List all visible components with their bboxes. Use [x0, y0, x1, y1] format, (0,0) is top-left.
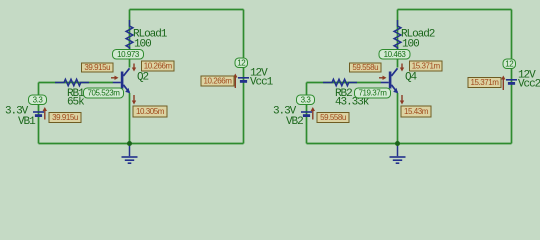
transistor Q2 (NPN) [113, 68, 130, 93]
ground near Q2 [122, 144, 138, 164]
svg-text:100: 100 [134, 39, 151, 51]
ground near Q4 [390, 144, 406, 164]
voltage probe label VB1 probe 3.3 [29, 95, 47, 105]
svg-text:10.973: 10.973 [117, 50, 140, 59]
current probe arrow base current into Q2 [111, 76, 119, 80]
current probe label VB1 current 39.915u [49, 113, 81, 123]
svg-text:3.3: 3.3 [33, 95, 44, 104]
current probe label emitter current 10.305m [133, 106, 167, 117]
wire collector net (RLoad1 to Q2) [129, 10, 131, 68]
svg-text:Vcc2: Vcc2 [518, 79, 540, 91]
current probe arrow collector current into Q4 [400, 64, 404, 72]
svg-text:39.915u: 39.915u [52, 113, 78, 122]
junction node emitter/ground [395, 141, 400, 146]
wire emitter net (Q2 to ground) [129, 93, 131, 144]
svg-text:705.523m: 705.523m [88, 89, 121, 98]
battery VB1 [33, 112, 44, 116]
svg-text:100: 100 [402, 39, 419, 51]
svg-text:65k: 65k [67, 97, 85, 109]
svg-text:15.371m: 15.371m [412, 62, 441, 71]
svg-text:59.558u: 59.558u [352, 63, 378, 72]
current probe label Vcc1 current 10.266m [201, 76, 234, 86]
resistor RLoad2 [394, 20, 401, 54]
current probe arrow Vcc1 current [233, 74, 237, 89]
wire VB2 branch [306, 83, 308, 144]
current probe label base current 39.915u [82, 63, 114, 72]
wire collector net (RLoad2 to Q4) [397, 10, 399, 68]
current probe arrow Vcc2 current [501, 76, 505, 91]
current probe label collector current 15.371m [410, 61, 443, 71]
svg-text:12: 12 [237, 58, 246, 67]
svg-text:15.43m: 15.43m [404, 107, 429, 116]
current probe label VB2 current 59.558u [317, 113, 349, 123]
wire base net (VB1 to Q2 base) [39, 82, 114, 84]
wire top rail (RLoad1 to Vcc1) [130, 9, 244, 11]
wire VB1 branch [38, 83, 40, 144]
current probe label base current 59.558u [350, 63, 382, 72]
wire emitter net (Q4 to ground) [397, 93, 399, 144]
wire bottom rail [39, 143, 244, 145]
svg-text:719.37m: 719.37m [359, 89, 388, 98]
svg-text:10.266m: 10.266m [144, 62, 173, 71]
svg-text:Q4: Q4 [405, 72, 418, 84]
voltage probe label collector voltage 10.973 [113, 50, 144, 60]
current probe arrow base current into Q4 [379, 76, 387, 80]
svg-text:Vcc1: Vcc1 [250, 77, 274, 89]
wire top rail (RLoad2 to Vcc2) [398, 9, 512, 11]
wire right side Vcc2 branch [511, 10, 513, 144]
transistor Q4 (NPN) [381, 68, 398, 93]
svg-text:39.915u: 39.915u [84, 63, 110, 72]
voltage probe label Vcc2 probe 12 [503, 59, 516, 69]
current probe arrow collector current into Q2 [132, 64, 136, 72]
resistor RB1 [55, 79, 89, 85]
battery Vcc1 [238, 78, 249, 82]
resistor RLoad1 [126, 20, 133, 54]
voltage probe label base voltage 719.37m [355, 88, 391, 98]
svg-text:Q2: Q2 [137, 72, 149, 84]
svg-text:15.371m: 15.371m [471, 78, 500, 87]
current probe label emitter current 15.43m [401, 106, 431, 117]
svg-text:10.266m: 10.266m [204, 77, 233, 86]
svg-text:12: 12 [505, 59, 514, 68]
voltage probe label collector voltage 10.463 [379, 50, 410, 60]
resistor RB2 [323, 79, 357, 85]
battery VB2 [301, 112, 312, 116]
battery Vcc2 [506, 80, 517, 84]
junction node emitter/ground [127, 141, 132, 146]
current probe arrow VB1 current [43, 107, 47, 120]
voltage probe label Vcc1 probe 12 [235, 58, 248, 68]
voltage probe label VB2 probe 3.3 [297, 95, 315, 105]
svg-text:10.463: 10.463 [384, 50, 407, 59]
svg-text:10.305m: 10.305m [136, 107, 165, 116]
svg-text:3.3: 3.3 [301, 95, 312, 104]
wire base net (VB2 to Q4 base) [307, 82, 382, 84]
current probe arrow VB2 current [311, 107, 315, 120]
current probe arrow emitter current of Q4 [400, 95, 404, 105]
svg-text:VB1: VB1 [18, 116, 36, 128]
svg-text:59.558u: 59.558u [320, 113, 346, 122]
wire right side Vcc1 branch [243, 10, 245, 144]
wire bottom rail [307, 143, 512, 145]
svg-text:VB2: VB2 [286, 116, 303, 128]
current probe arrow emitter current of Q2 [132, 95, 136, 105]
current probe label collector current 10.266m [142, 61, 175, 71]
current probe label Vcc2 current 15.371m [468, 78, 501, 88]
voltage probe label base voltage 705.523m [84, 88, 124, 98]
